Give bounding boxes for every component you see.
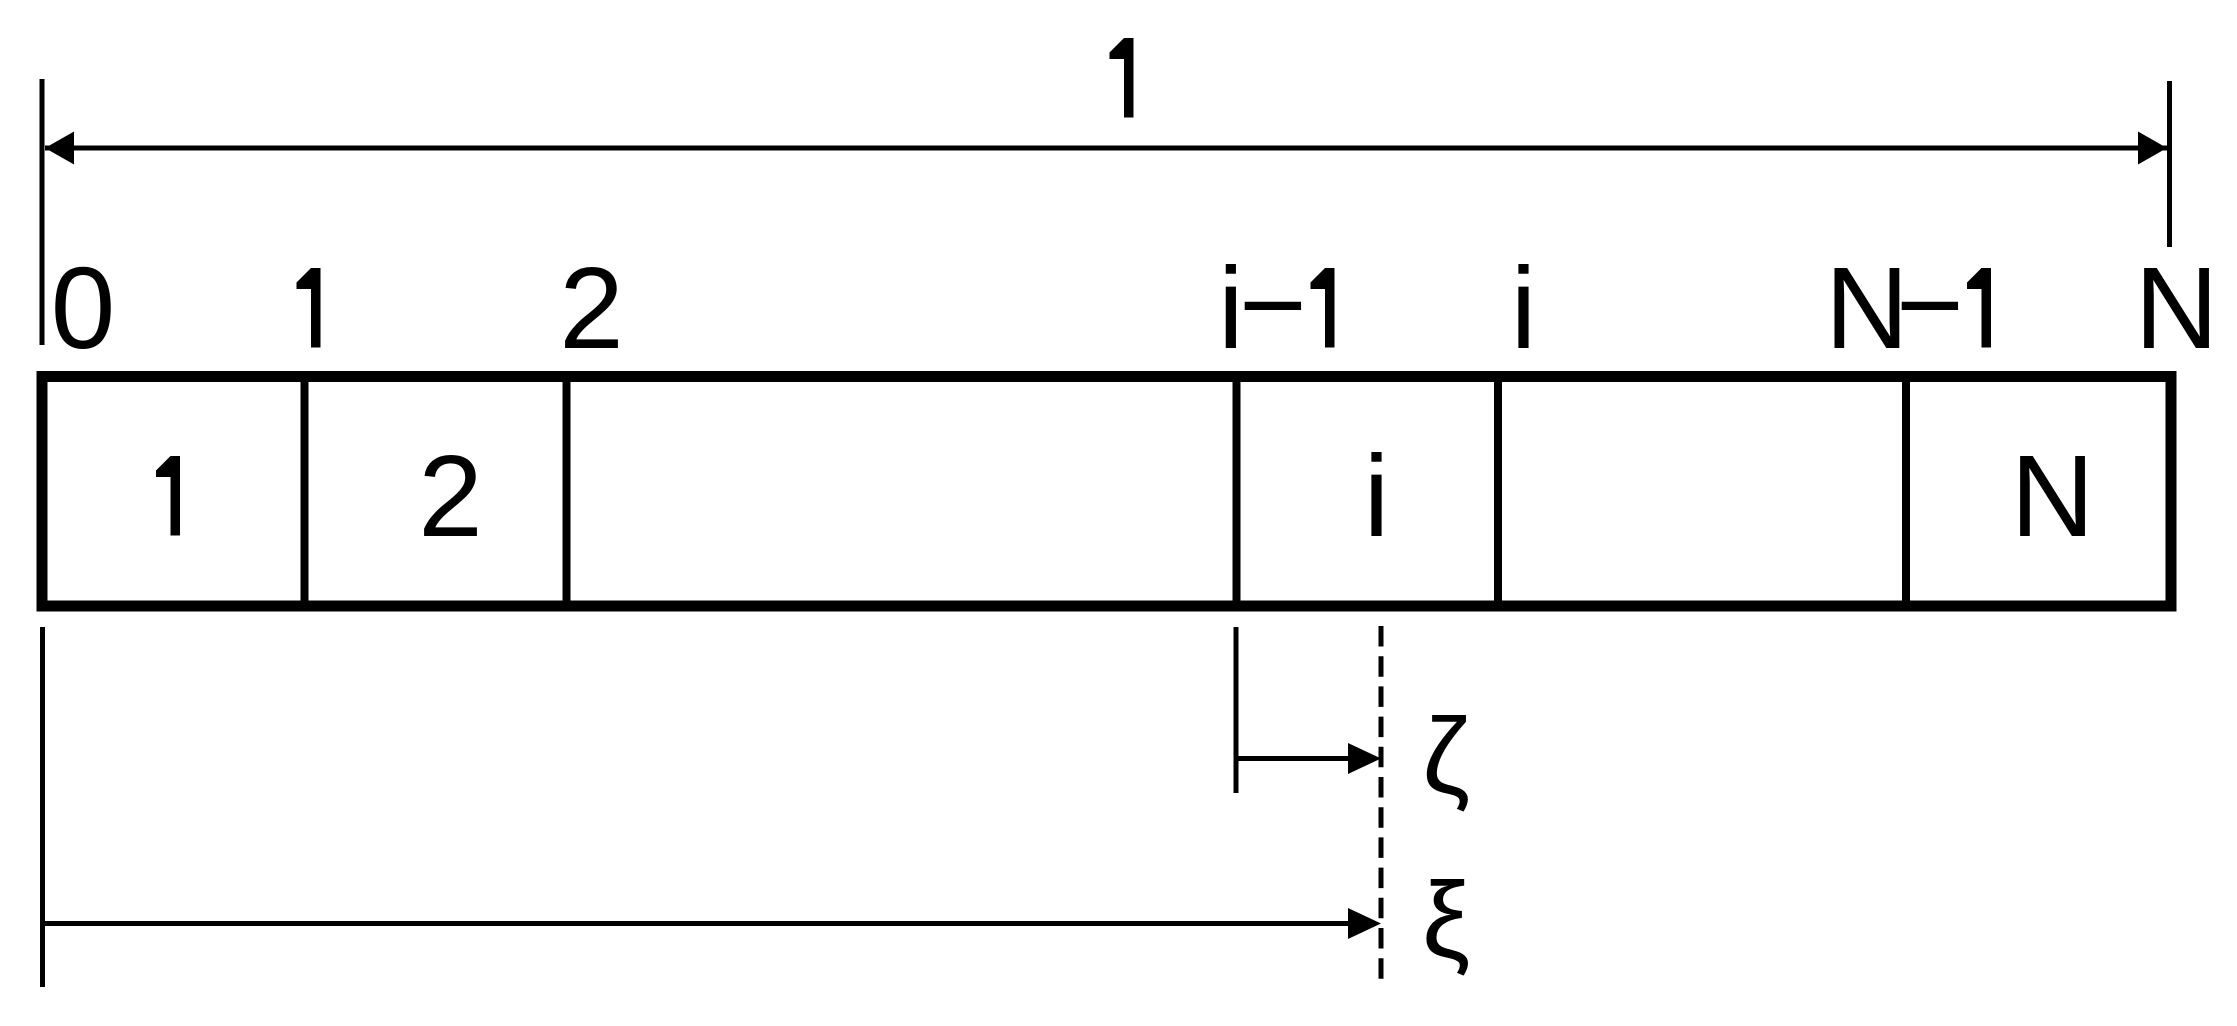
svg-text:ζ: ζ	[1422, 695, 1470, 816]
dimension arrow line (total length 1)	[45, 132, 2167, 165]
cell label 1	[156, 456, 180, 536]
boundary label 1	[297, 268, 321, 348]
cell divider at boundary 1	[301, 382, 309, 601]
svg-text:−: −	[1239, 240, 1307, 370]
svg-text:N: N	[2135, 243, 2219, 373]
lower tick below boundary i-1	[1234, 627, 1239, 793]
svg-text:−: −	[1896, 240, 1964, 370]
svg-text:2: 2	[418, 431, 483, 561]
cell divider at boundary N-1	[1902, 382, 1910, 601]
zeta arrow (local coordinate)	[1236, 743, 1381, 774]
cell divider at boundary 2	[563, 382, 571, 601]
boundary label N-1	[1825, 240, 1991, 374]
boundary label i-1	[1218, 240, 1335, 374]
lower reference line below boundary 0	[40, 627, 45, 987]
svg-text:0: 0	[51, 243, 116, 373]
discretized bar outer box	[42, 377, 2171, 607]
cell divider at boundary i	[1494, 382, 1502, 601]
svg-text:2: 2	[559, 243, 624, 373]
left extension tick at x=0	[40, 79, 45, 345]
svg-text:i: i	[1364, 431, 1390, 561]
right extension tick at x=N	[2167, 81, 2172, 247]
svg-text:ξ: ξ	[1422, 859, 1470, 980]
label "1" total length	[1110, 38, 1134, 118]
dashed line at particle position	[1379, 626, 1384, 979]
svg-text:N: N	[2011, 431, 2095, 561]
cell divider at boundary i-1	[1233, 382, 1241, 601]
svg-text:i: i	[1511, 243, 1537, 373]
xi arrow (global coordinate)	[43, 908, 1382, 939]
